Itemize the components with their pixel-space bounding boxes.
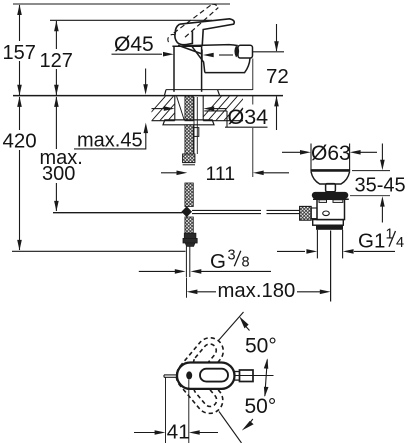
leader 50° lower: [219, 412, 242, 443]
dim 127: [54, 21, 59, 95]
faucet: dashed open lever: [168, 4, 218, 44]
mounting washer: [163, 120, 214, 125]
top view: pivot dot: [186, 371, 192, 379]
top view: lever stick: [164, 374, 178, 376]
dim 35-45: [352, 170, 390, 172]
svg-text:50°: 50°: [245, 335, 277, 358]
svg-text:max.45: max.45: [77, 129, 143, 151]
leader Ø34: [204, 111, 267, 127]
faucet shank threaded through deck: [185, 96, 193, 121]
label G3/8 with arrows: [139, 270, 175, 272]
svg-text:3: 3: [228, 248, 236, 264]
svg-text:420: 420: [3, 130, 37, 153]
svg-text:111: 111: [206, 163, 236, 185]
drain body: [313, 199, 349, 220]
svg-text:300: 300: [42, 163, 75, 185]
dim Ø34 arrows: [152, 108, 165, 110]
top view: spout neck: [235, 371, 240, 373]
top view: dashed swivel up 50°: [171, 332, 228, 393]
drain centerline: [330, 231, 332, 302]
deck hatched section: [140, 91, 274, 125]
dim 157: [17, 5, 22, 96]
supply pipe threads below gap: [185, 183, 193, 207]
supply pipe threads below junction: [185, 217, 193, 233]
dim 72: [274, 24, 279, 130]
supply pipe tail: [185, 246, 187, 277]
svg-text:4: 4: [396, 235, 404, 251]
drain thread band: [316, 225, 343, 230]
top view: dashed swivel down 50°: [171, 358, 228, 419]
svg-text:Ø63: Ø63: [311, 142, 351, 165]
ref line top (157 upper reference): [13, 3, 230, 5]
swivel range arrows at spout: [265, 360, 268, 397]
supply shank threads below washer: [185, 125, 193, 155]
svg-text:max.180: max.180: [218, 280, 296, 302]
deck top line: [13, 95, 283, 97]
G3/8 connector: [183, 233, 197, 246]
ref line hose end (420 lower reference): [12, 250, 186, 252]
label 41: [167, 421, 188, 440]
dim max.300: [54, 96, 59, 211]
drain seal ring: [312, 192, 349, 199]
drain tailpipe: [316, 230, 318, 259]
ref line 127 upper reference: [50, 19, 212, 21]
pop-up rod left: [53, 212, 183, 214]
drain: dim Ø63: [282, 151, 300, 153]
svg-text:127: 127: [40, 50, 73, 72]
faucet: solid lever: [175, 19, 234, 54]
dim 420: [17, 96, 22, 250]
shank nut section: [183, 154, 195, 163]
svg-text:72: 72: [266, 65, 289, 88]
rod junction: [181, 206, 192, 217]
top view: inner slot: [200, 369, 228, 382]
svg-text:G: G: [210, 250, 226, 273]
ref line spout outlet (72 upper reference): [253, 51, 284, 53]
shank tube: [193, 97, 195, 154]
shank side tab: [194, 128, 199, 137]
dim G1 1/4: [277, 250, 305, 252]
drain locknut: [313, 220, 344, 226]
svg-text:50°: 50°: [245, 395, 277, 418]
node: spout outlet extension line: [252, 59, 254, 91]
max.45 upper arrow: [145, 69, 147, 86]
dim 111: [161, 172, 177, 174]
svg-text:8: 8: [242, 255, 250, 271]
faucet escutcheon: [165, 90, 253, 96]
dim max.180: [186, 278, 188, 298]
svg-text:41: 41: [167, 421, 190, 443]
faucet spout: [184, 45, 253, 73]
faucet body: [172, 46, 201, 92]
top view: spout tip: [240, 370, 254, 382]
svg-text:Ø45: Ø45: [114, 33, 154, 56]
svg-text:Ø34: Ø34: [228, 105, 269, 129]
node: Ø45 right extension: [201, 50, 203, 61]
svg-text:35-45: 35-45: [355, 175, 406, 197]
leader 50° upper: [218, 312, 244, 341]
top view: faucet capsule: [177, 363, 235, 389]
drain plug knob: [326, 184, 336, 192]
drain rod nut (knurled): [300, 206, 330, 220]
drain flange: [310, 144, 350, 185]
svg-text:157: 157: [3, 42, 36, 64]
pop-up rod right (to drain): [192, 210, 300, 213]
svg-text:G1: G1: [358, 230, 385, 253]
dim 41: [165, 378, 167, 443]
